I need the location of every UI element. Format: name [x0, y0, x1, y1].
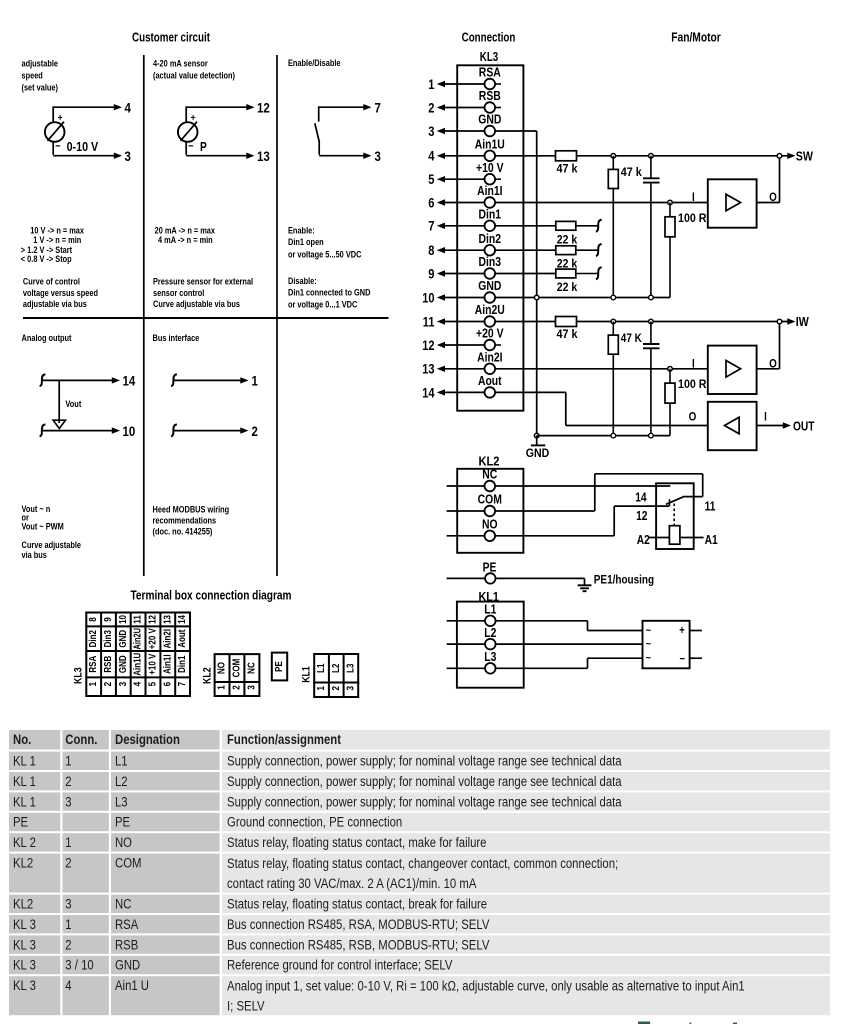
wire bus 1	[171, 374, 177, 386]
svg-text:Din2: Din2	[479, 231, 502, 246]
wire analog out 10	[40, 424, 46, 436]
wire analog out 14	[40, 374, 46, 386]
svg-text:11: 11	[133, 615, 144, 624]
svg-text:3: 3	[246, 685, 257, 690]
wire PE to earth	[496, 577, 585, 579]
svg-text:KL 2: KL 2	[13, 835, 36, 850]
svg-text:+20 V: +20 V	[147, 628, 158, 649]
svg-text:Analog input 1, set value: 0-1: Analog input 1, set value: 0-10 V, Ri = …	[227, 979, 745, 994]
terminal box PE	[272, 653, 287, 681]
svg-text:2: 2	[231, 685, 242, 690]
logo fragment bottom	[638, 1022, 650, 1024]
output amplifier OUT	[708, 402, 757, 450]
terminal box KL1	[313, 654, 315, 697]
svg-text:Function/assignment: Function/assignment	[227, 732, 341, 747]
svg-text:voltage versus speed: voltage versus speed	[23, 288, 98, 298]
svg-text:+: +	[191, 112, 196, 124]
svg-text:KL 3: KL 3	[13, 958, 36, 973]
svg-text:KL 1: KL 1	[13, 754, 36, 769]
svg-text:I: I	[764, 410, 767, 424]
svg-text:Enable/Disable: Enable/Disable	[288, 58, 341, 68]
capacitor	[649, 319, 654, 324]
row divider	[23, 317, 389, 319]
svg-text:A1: A1	[705, 533, 718, 547]
svg-text:Disable:: Disable:	[288, 276, 317, 286]
svg-text:4 mA -> n = min: 4 mA -> n = min	[158, 235, 213, 245]
svg-text:adjustable via bus: adjustable via bus	[23, 299, 87, 309]
svg-text:11: 11	[423, 314, 435, 329]
svg-text:Status relay, floating status: Status relay, floating status contact, m…	[227, 835, 487, 850]
svg-text:adjustable: adjustable	[22, 59, 59, 69]
svg-text:RSA: RSA	[88, 656, 99, 673]
svg-text:KL3: KL3	[480, 50, 499, 64]
svg-text:22 k: 22 k	[557, 280, 578, 294]
wire A1	[680, 537, 704, 539]
resistor 47 k series	[495, 321, 555, 323]
svg-text:Enable:: Enable:	[288, 225, 315, 235]
column divider	[143, 55, 145, 576]
sensor P wires	[187, 106, 250, 108]
connector KL1 box	[457, 602, 524, 688]
svg-text:4: 4	[428, 149, 435, 164]
svg-text:KL 3: KL 3	[13, 937, 36, 952]
svg-text:Din1 connected to GND: Din1 connected to GND	[288, 288, 371, 298]
switch contact symbol	[596, 220, 602, 232]
svg-text:OUT: OUT	[793, 419, 815, 433]
svg-text:PE: PE	[274, 661, 285, 672]
svg-text:PE: PE	[13, 815, 28, 830]
svg-text:+10 V: +10 V	[147, 653, 158, 674]
ground GND symbol	[534, 433, 539, 438]
svg-text:7: 7	[375, 99, 382, 115]
svg-text:Bus connection RS485, RSB, MOD: Bus connection RS485, RSB, MODBUS-RTU; S…	[227, 937, 489, 952]
svg-text:Din1: Din1	[177, 655, 188, 673]
svg-text:Terminal box connection diagra: Terminal box connection diagram	[131, 587, 292, 602]
svg-text:COM: COM	[231, 659, 242, 678]
svg-text:2: 2	[252, 423, 259, 439]
svg-text:3: 3	[428, 124, 435, 139]
wire	[185, 142, 187, 155]
svg-text:speed: speed	[22, 70, 43, 80]
svg-text:+20 V: +20 V	[476, 326, 504, 341]
svg-text:~: ~	[646, 625, 652, 637]
svg-text:L1: L1	[316, 663, 327, 673]
svg-text:Supply connection, power suppl: Supply connection, power supply; for nom…	[227, 754, 622, 769]
svg-text:3: 3	[65, 897, 71, 912]
wire NC to relay contact 14	[495, 485, 670, 487]
svg-text:Din1 open: Din1 open	[288, 237, 324, 247]
svg-text:Curve of control: Curve of control	[23, 276, 80, 286]
stub	[495, 344, 501, 346]
resistor 47 k series	[495, 155, 555, 157]
terminal L3	[447, 667, 485, 669]
svg-text:Ain1I: Ain1I	[477, 183, 502, 198]
svg-text:100 R: 100 R	[678, 211, 707, 225]
svg-text:KL 1: KL 1	[13, 794, 36, 809]
relay box	[656, 483, 694, 549]
svg-text:Bus connection RS485, RSA, MOD: Bus connection RS485, RSA, MODBUS-RTU; S…	[227, 917, 489, 932]
wire NO to relay 12	[495, 535, 614, 537]
svg-text:~: ~	[646, 639, 652, 651]
svg-text:Supply connection, power suppl: Supply connection, power supply; for nom…	[227, 794, 622, 809]
svg-text:SW: SW	[796, 148, 814, 163]
wire output	[757, 368, 780, 370]
svg-text:RSB: RSB	[115, 937, 138, 952]
stub	[495, 178, 501, 180]
svg-text:1 V -> n = min: 1 V -> n = min	[33, 235, 81, 245]
svg-text:14: 14	[422, 385, 435, 400]
svg-text:−: −	[188, 140, 193, 152]
svg-text:L3: L3	[484, 649, 496, 664]
svg-text:NO: NO	[482, 517, 498, 532]
svg-text:GND: GND	[526, 446, 550, 460]
source 0-10 V	[45, 122, 65, 142]
svg-text:2: 2	[428, 100, 434, 115]
svg-text:Bus interface: Bus interface	[153, 333, 200, 343]
svg-text:13: 13	[257, 148, 270, 164]
svg-text:3: 3	[345, 686, 356, 691]
svg-text:GND: GND	[115, 958, 140, 973]
terminal L1	[447, 620, 485, 622]
svg-text:Fan/Motor: Fan/Motor	[671, 30, 721, 45]
svg-text:+: +	[679, 625, 685, 637]
svg-text:10: 10	[118, 615, 129, 624]
svg-text:2: 2	[65, 937, 71, 952]
svg-text:KL2: KL2	[13, 897, 33, 912]
svg-text:Aout: Aout	[177, 629, 188, 648]
svg-text:11: 11	[705, 500, 716, 514]
svg-text:5: 5	[147, 681, 158, 686]
svg-text:Din3: Din3	[479, 254, 502, 269]
svg-text:(doc. no. 414255): (doc. no. 414255)	[153, 527, 213, 537]
svg-text:47 k: 47 k	[621, 165, 642, 179]
connector KL3 box	[457, 65, 523, 410]
junction dots rail 2	[611, 433, 616, 438]
ground PE1/housing earth symbol	[578, 584, 592, 586]
wire bus 2	[171, 424, 177, 436]
svg-text:RSA: RSA	[115, 917, 138, 932]
wire - output	[690, 657, 702, 659]
svg-text:Ain2U: Ain2U	[133, 628, 144, 650]
terminal L2	[447, 643, 485, 645]
svg-text:L2: L2	[115, 774, 128, 789]
svg-text:2: 2	[65, 774, 71, 789]
svg-text:P: P	[200, 140, 207, 154]
wire L1	[496, 620, 588, 622]
svg-text:3: 3	[125, 148, 132, 164]
resistor 22 k	[495, 249, 556, 251]
svg-text:1: 1	[65, 754, 71, 769]
svg-text:GND: GND	[118, 655, 129, 673]
svg-text:6: 6	[428, 195, 435, 210]
svg-text:7: 7	[428, 219, 434, 234]
svg-text:9: 9	[103, 617, 114, 622]
svg-text:NO: NO	[115, 835, 132, 850]
svg-text:Conn.: Conn.	[65, 732, 97, 747]
svg-text:3: 3	[65, 794, 71, 809]
svg-text:< 0.8 V -> Stop: < 0.8 V -> Stop	[21, 254, 72, 264]
wire input I	[495, 368, 708, 370]
resistor 100 R	[669, 203, 671, 217]
stub	[495, 107, 501, 109]
capacitor	[649, 154, 654, 159]
connector KL2 box	[457, 469, 523, 553]
svg-text:4: 4	[125, 99, 132, 115]
wire to OUT	[757, 425, 783, 427]
svg-text:KL 1: KL 1	[13, 774, 36, 789]
svg-text:22 k: 22 k	[557, 232, 578, 246]
svg-text:12: 12	[147, 615, 158, 624]
svg-text:7: 7	[177, 681, 188, 686]
svg-text:RSA: RSA	[479, 65, 501, 80]
svg-text:Pressure sensor for external: Pressure sensor for external	[153, 276, 253, 286]
svg-text:47 K: 47 K	[621, 331, 642, 345]
svg-text:1: 1	[316, 686, 327, 691]
relay contact blade	[666, 496, 685, 504]
svg-text:12: 12	[422, 338, 434, 353]
svg-text:Vout ~ PWM: Vout ~ PWM	[22, 522, 64, 532]
amplifier	[708, 346, 757, 394]
svg-text:8: 8	[428, 243, 435, 258]
svg-text:8: 8	[88, 617, 99, 622]
svg-text:GND: GND	[478, 278, 501, 293]
svg-text:Designation: Designation	[115, 732, 180, 747]
source 0-10 V wires	[54, 106, 117, 108]
svg-text:Ain1 U: Ain1 U	[115, 978, 149, 993]
GND bus from terminal 3	[495, 130, 537, 132]
svg-text:NC: NC	[246, 662, 257, 674]
svg-text:Din1: Din1	[479, 207, 502, 222]
svg-text:A2: A2	[637, 533, 650, 547]
svg-text:0-10 V: 0-10 V	[67, 140, 99, 154]
svg-text:1: 1	[217, 685, 228, 690]
GND rail 2	[537, 435, 670, 437]
svg-text:Ain1U: Ain1U	[475, 137, 505, 152]
svg-text:Supply connection, power suppl: Supply connection, power supply; for nom…	[227, 774, 622, 789]
wire L2	[496, 643, 643, 645]
svg-text:~: ~	[646, 653, 652, 665]
svg-text:10: 10	[123, 423, 136, 439]
svg-text:KL 3: KL 3	[13, 917, 36, 932]
source P	[178, 122, 198, 142]
svg-text:KL1: KL1	[301, 666, 313, 683]
wire	[318, 140, 320, 155]
svg-text:No.: No.	[13, 732, 31, 747]
svg-text:NC: NC	[482, 467, 497, 482]
wire L3	[496, 667, 588, 669]
svg-text:Din2: Din2	[88, 630, 99, 648]
svg-text:Analog output: Analog output	[22, 333, 72, 343]
svg-text:via bus: via bus	[22, 550, 47, 560]
svg-text:47 k: 47 k	[557, 162, 578, 176]
resistor 22 k	[495, 225, 556, 227]
svg-text:1: 1	[88, 681, 99, 686]
svg-text:47 k: 47 k	[557, 327, 578, 341]
svg-text:NO: NO	[217, 662, 228, 674]
svg-text:L3: L3	[345, 663, 356, 673]
svg-text:L2: L2	[331, 663, 342, 673]
svg-text:Aout: Aout	[478, 373, 502, 388]
svg-text:RSB: RSB	[103, 656, 114, 673]
svg-text:L3: L3	[115, 794, 128, 809]
svg-text:L1: L1	[115, 754, 128, 769]
resistor 47 k shunt	[611, 319, 616, 324]
svg-text:9: 9	[428, 266, 434, 281]
wire Aout to output amp	[495, 391, 566, 393]
resistor 22 k	[495, 273, 556, 275]
junction dots rail 1	[611, 295, 616, 300]
svg-text:Din3: Din3	[103, 630, 114, 648]
svg-text:−: −	[680, 654, 686, 666]
svg-text:2: 2	[331, 686, 342, 691]
svg-text:KL3: KL3	[73, 667, 85, 684]
wire terminal 10 / GND rail 1	[495, 297, 670, 299]
wire	[577, 321, 788, 323]
svg-text:3: 3	[375, 148, 382, 164]
svg-text:12: 12	[636, 509, 647, 523]
terminal COM	[447, 510, 485, 512]
svg-text:14: 14	[177, 615, 188, 624]
svg-text:PE: PE	[483, 560, 497, 574]
svg-text:Ain2U: Ain2U	[475, 302, 505, 317]
switch contact symbol	[596, 244, 602, 256]
svg-text:1: 1	[428, 77, 435, 92]
svg-text:Ain2I: Ain2I	[477, 350, 502, 365]
svg-text:sensor control: sensor control	[153, 288, 204, 298]
svg-text:KL2: KL2	[13, 856, 33, 871]
svg-text:Ain1I: Ain1I	[162, 654, 173, 674]
svg-text:RSB: RSB	[479, 88, 501, 103]
svg-text:−: −	[55, 140, 60, 152]
svg-text:KL 3: KL 3	[13, 978, 36, 993]
svg-text:14: 14	[123, 373, 136, 389]
svg-text:Curve adjustable: Curve adjustable	[22, 540, 82, 550]
svg-text:Curve adjustable via bus: Curve adjustable via bus	[153, 299, 240, 309]
svg-text:13: 13	[422, 362, 435, 377]
wire A2	[648, 537, 669, 539]
svg-text:Status relay, floating status: Status relay, floating status contact, b…	[227, 897, 487, 912]
svg-text:Vout: Vout	[65, 399, 81, 409]
svg-text:Status relay, floating status: Status relay, floating status contact, c…	[227, 856, 618, 871]
stub	[495, 83, 501, 85]
svg-text:1: 1	[65, 835, 71, 850]
svg-text:1: 1	[65, 917, 71, 932]
svg-text:4: 4	[65, 978, 72, 993]
svg-text:O: O	[689, 410, 697, 424]
svg-text:KL2: KL2	[202, 667, 214, 684]
svg-text:3 / 10: 3 / 10	[65, 958, 93, 973]
svg-text:or voltage 0...1 VDC: or voltage 0...1 VDC	[288, 299, 358, 309]
svg-text:14: 14	[635, 491, 646, 505]
wire	[52, 142, 54, 155]
svg-text:100 R: 100 R	[678, 377, 707, 391]
wire	[577, 155, 788, 157]
terminal box KL3	[85, 613, 87, 697]
svg-text:GND: GND	[478, 112, 501, 127]
svg-text:Ain2I: Ain2I	[162, 629, 173, 649]
svg-text:COM: COM	[478, 492, 502, 507]
svg-text:Ain1U: Ain1U	[133, 653, 144, 676]
svg-text:GND: GND	[118, 630, 129, 648]
svg-text:NC: NC	[115, 897, 132, 912]
wire output	[757, 202, 780, 204]
terminal box KL2	[214, 654, 216, 696]
svg-text:Heed MODBUS wiring: Heed MODBUS wiring	[153, 505, 230, 515]
svg-text:Ground connection, PE connecti: Ground connection, PE connection	[227, 815, 402, 830]
relay coil	[669, 526, 680, 545]
resistor 47 k shunt	[611, 154, 616, 159]
svg-text:(actual value detection): (actual value detection)	[153, 70, 235, 80]
terminal NC	[447, 485, 485, 487]
column divider	[276, 55, 278, 576]
svg-text:1: 1	[252, 373, 259, 389]
svg-text:2: 2	[103, 681, 114, 686]
svg-text:5: 5	[428, 172, 435, 187]
svg-text:3: 3	[118, 681, 129, 686]
svg-text:10: 10	[422, 290, 434, 305]
resistor 100 R	[669, 369, 671, 383]
svg-text:PE: PE	[115, 815, 130, 830]
svg-text:contact rating 30 VAC/max. 2 A: contact rating 30 VAC/max. 2 A (AC1)/min…	[227, 876, 476, 891]
svg-text:4-20 mA sensor: 4-20 mA sensor	[153, 59, 208, 69]
svg-text:recommendations: recommendations	[153, 516, 217, 526]
svg-text:L1: L1	[484, 602, 496, 617]
svg-text:Connection: Connection	[462, 30, 516, 45]
svg-text:PE1/housing: PE1/housing	[594, 573, 654, 587]
svg-text:Customer circuit: Customer circuit	[132, 30, 210, 45]
svg-text:6: 6	[162, 681, 173, 686]
svg-text:IW: IW	[796, 314, 810, 329]
svg-text:12: 12	[257, 99, 270, 115]
rectifier	[643, 621, 690, 669]
wire input I	[495, 202, 708, 204]
amplifier	[708, 179, 757, 227]
svg-text:+10 V: +10 V	[476, 160, 504, 175]
svg-text:2: 2	[65, 856, 71, 871]
wire + output	[690, 630, 702, 632]
svg-text:4: 4	[133, 681, 144, 686]
terminal NO	[447, 535, 485, 537]
svg-text:13: 13	[162, 615, 173, 624]
wire COM to relay 11	[495, 510, 595, 512]
svg-text:I; SELV: I; SELV	[227, 998, 265, 1013]
svg-text:Reference ground for control i: Reference ground for control interface; …	[227, 958, 452, 973]
arrow Vout	[58, 381, 60, 423]
svg-text:L2: L2	[484, 625, 496, 640]
switch contact symbol	[596, 267, 602, 279]
svg-text:(set value): (set value)	[22, 82, 59, 92]
function table	[9, 730, 60, 750]
svg-text:or voltage 5...50 VDC: or voltage 5...50 VDC	[288, 250, 362, 260]
svg-text:COM: COM	[115, 856, 142, 871]
svg-text:+: +	[58, 112, 63, 124]
switch Enable/Disable	[320, 106, 367, 108]
